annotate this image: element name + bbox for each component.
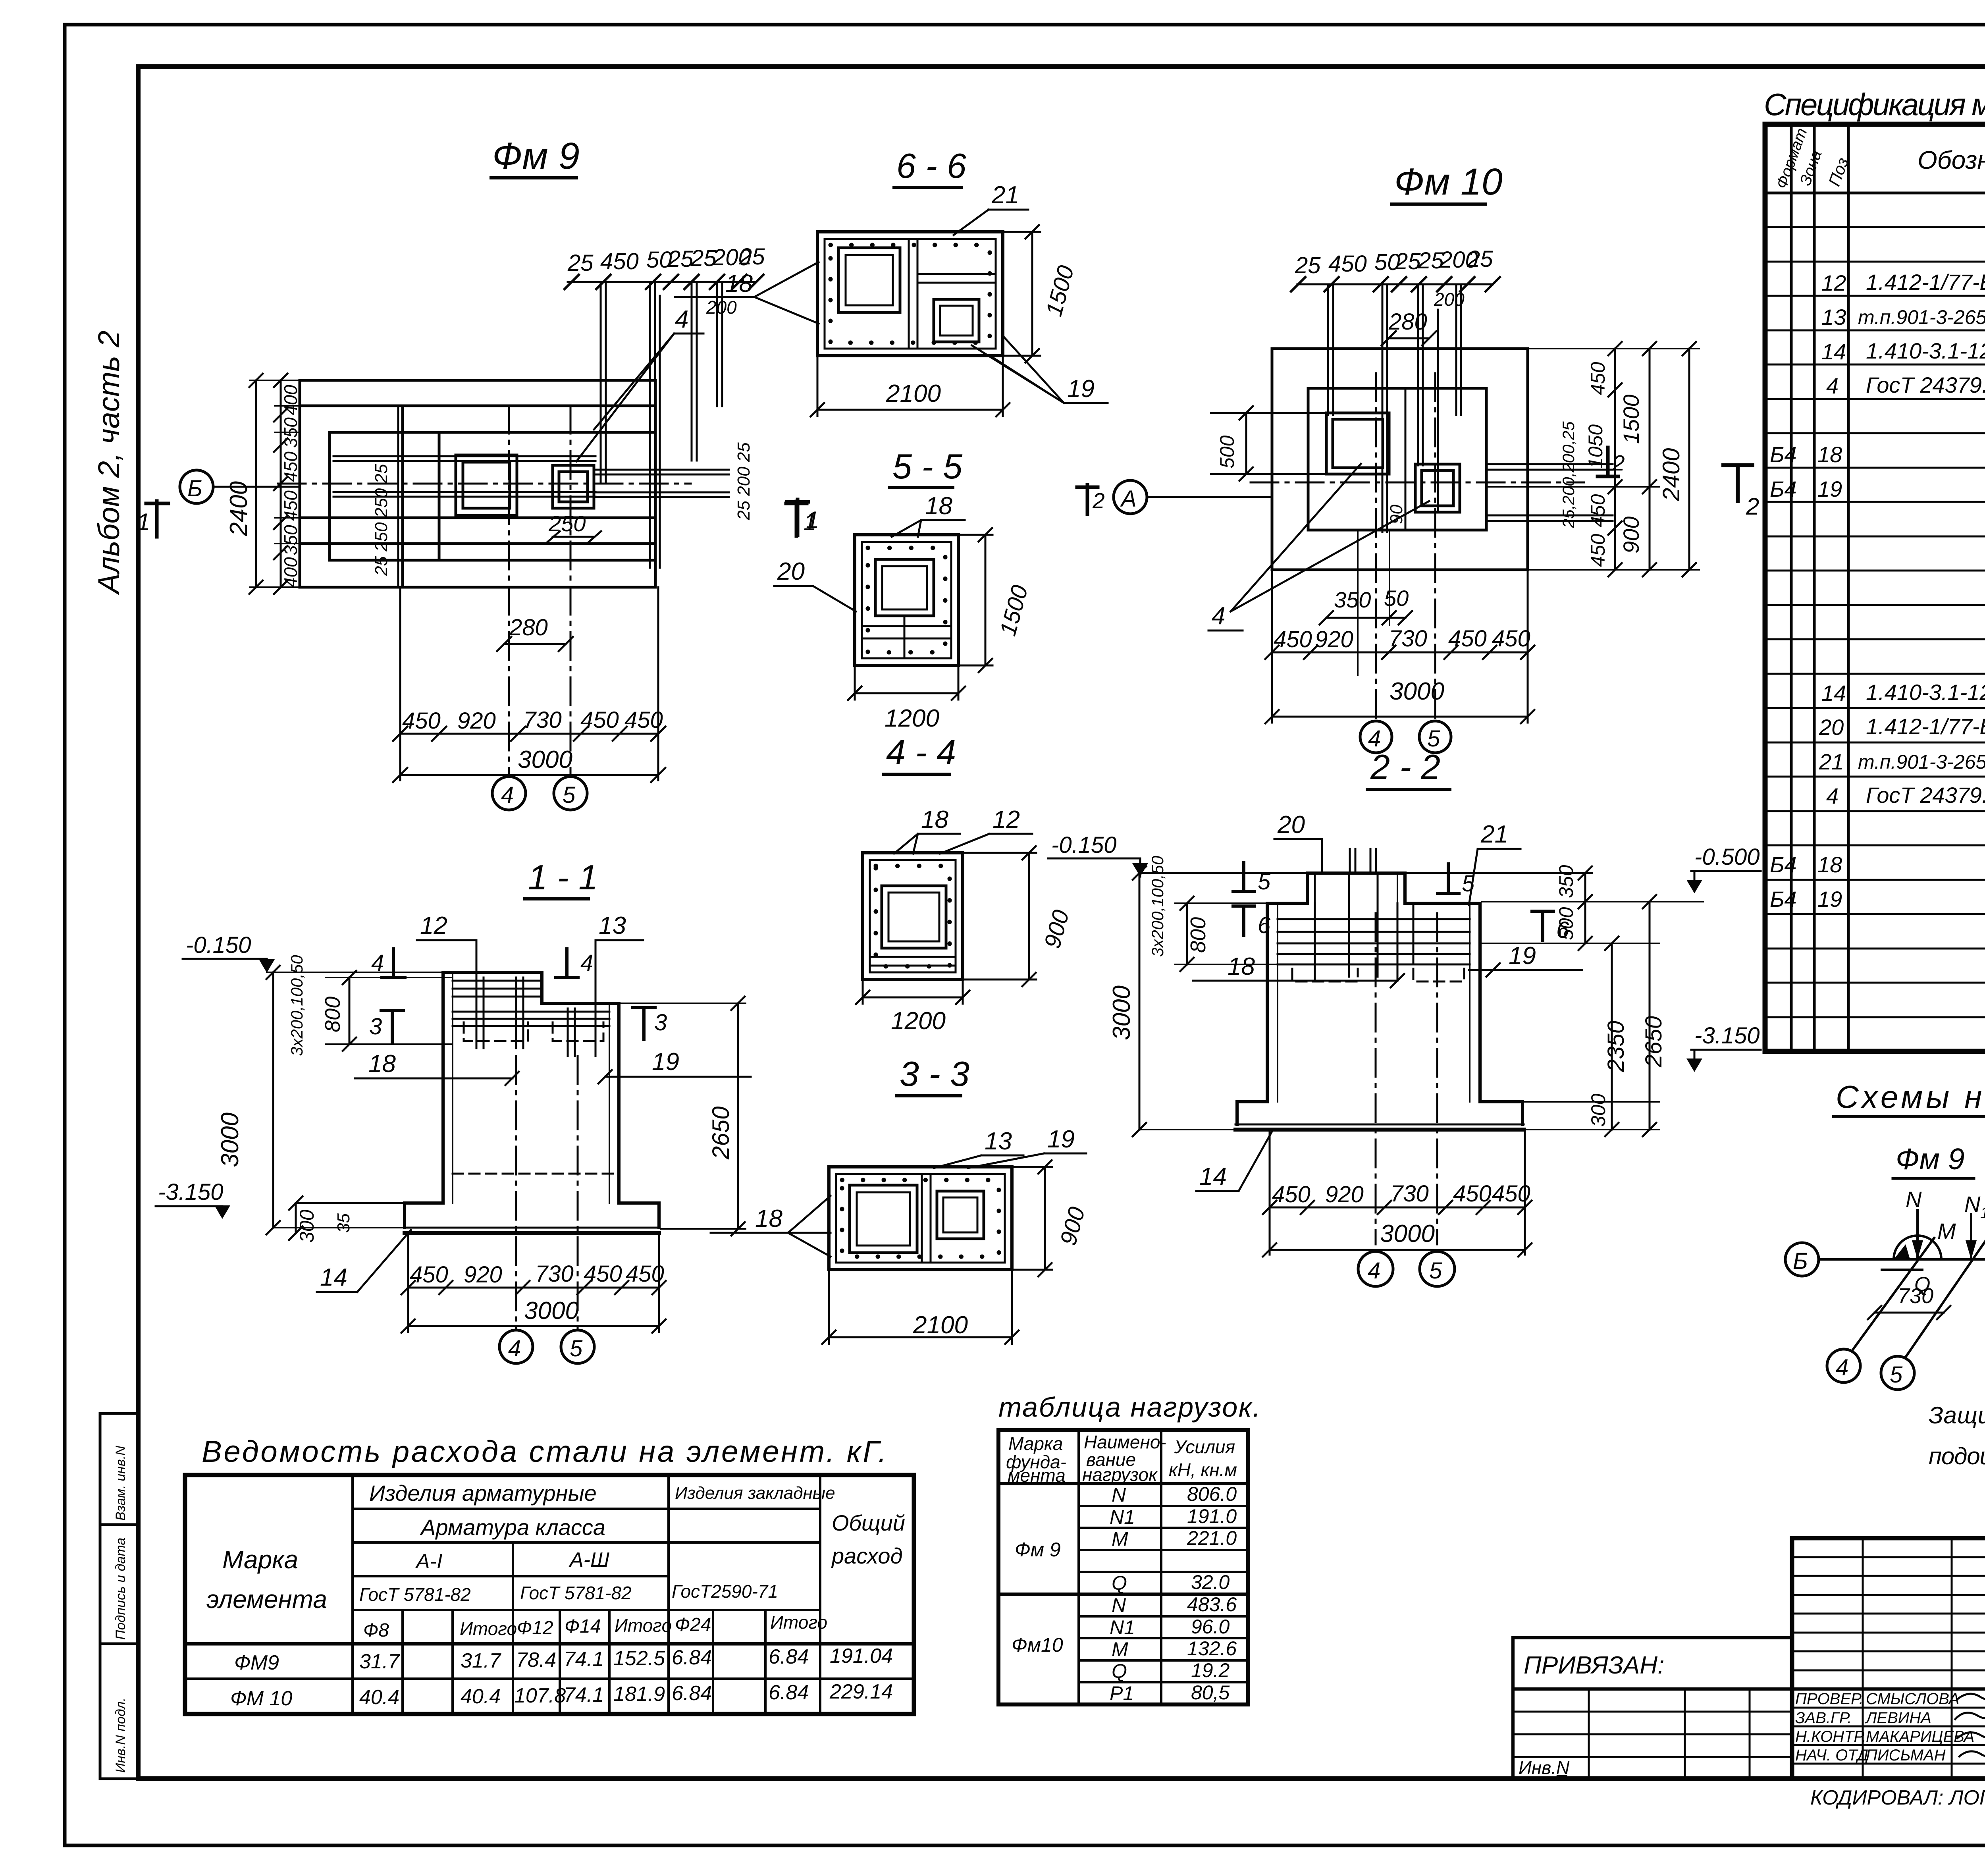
- svg-text:3 - 3: 3 - 3: [900, 1054, 969, 1093]
- svg-text:М: М: [1112, 1528, 1128, 1550]
- svg-text:300: 300: [296, 1209, 318, 1243]
- svg-text:4: 4: [1826, 373, 1839, 398]
- svg-text:6 - 6: 6 - 6: [896, 146, 966, 185]
- svg-text:18: 18: [1228, 953, 1255, 980]
- 1-1 footing: [405, 1203, 659, 1233]
- svg-text:450: 450: [580, 707, 619, 733]
- cut marks 6 (2-2): [1233, 906, 1569, 943]
- svg-text:920: 920: [464, 1262, 502, 1288]
- svg-text:78.4: 78.4: [516, 1648, 556, 1672]
- svg-text:25: 25: [739, 244, 765, 270]
- 6-6 right pocket: [934, 299, 979, 342]
- svg-text:450: 450: [1587, 534, 1609, 567]
- 5-5 bottom dim 1200: [848, 665, 965, 732]
- 4-4 pocket: [882, 886, 946, 948]
- svg-text:500: 500: [1216, 435, 1238, 469]
- svg-text:ГосТ 5781-82: ГосТ 5781-82: [520, 1583, 632, 1603]
- leader 21: [954, 181, 1028, 235]
- svg-text:Q: Q: [1112, 1572, 1127, 1594]
- svg-text:N: N: [1906, 1187, 1922, 1212]
- svg-text:350: 350: [1334, 587, 1371, 612]
- svg-text:ГосТ 24379.1-80: ГосТ 24379.1-80: [1866, 783, 1985, 808]
- dotted rebar ring 3-3: [842, 1180, 999, 1257]
- svg-text:3000: 3000: [1108, 985, 1135, 1040]
- svg-text:50: 50: [1384, 586, 1409, 611]
- leader 19 (2-2): [1469, 942, 1582, 977]
- svg-text:т.п.901-3-265 .89 КЖ.И71 0.0.0: т.п.901-3-265 .89 КЖ.И71 0.0.0.: [1858, 306, 1985, 328]
- svg-text:5: 5: [1890, 1362, 1903, 1388]
- steel table frame: [185, 1475, 914, 1714]
- 6-6 dividers: [908, 239, 910, 349]
- svg-text:Ф8: Ф8: [363, 1620, 389, 1641]
- svg-text:Взам. инв.N: Взам. инв.N: [113, 1446, 128, 1521]
- leader 18 (2-2): [1193, 953, 1404, 987]
- FM9 scheme force N1: [1964, 1192, 1985, 1259]
- leader 12 (1-1): [417, 912, 476, 985]
- svg-text:6.84: 6.84: [769, 1681, 809, 1704]
- box 6-6 formwork: [817, 232, 1003, 356]
- svg-text:мента: мента: [1008, 1465, 1066, 1486]
- svg-text:ПРИВЯЗАН:: ПРИВЯЗАН:: [1524, 1652, 1664, 1679]
- left 500 dim (FM10): [1211, 406, 1326, 481]
- svg-text:Б4: Б4: [1770, 476, 1797, 501]
- title block left mini-grid: [1792, 1538, 1985, 1779]
- svg-text:Подпись и дата: Подпись и дата: [113, 1538, 128, 1640]
- grid bubble 4 (FM9): [492, 777, 526, 810]
- FM10 3000 dim: [1265, 678, 1534, 723]
- svg-text:2400: 2400: [225, 481, 252, 536]
- FM9 scheme Q: [1882, 1270, 1930, 1296]
- svg-text:Изделия арматурные: Изделия арматурные: [369, 1481, 597, 1506]
- steel table horizontals: [185, 1509, 914, 1679]
- svg-text:800: 800: [321, 997, 345, 1032]
- svg-text:450: 450: [584, 1261, 622, 1287]
- svg-text:А-Ш: А-Ш: [569, 1548, 609, 1571]
- svg-text:74.1: 74.1: [564, 1683, 604, 1706]
- svg-text:25: 25: [1395, 249, 1421, 274]
- svg-text:400: 400: [280, 557, 301, 588]
- svg-text:N: N: [1112, 1594, 1126, 1616]
- svg-text:4: 4: [1836, 1355, 1848, 1380]
- title 2-2: [1367, 747, 1450, 789]
- svg-text:2400: 2400: [1658, 448, 1684, 501]
- svg-text:191.04: 191.04: [830, 1645, 893, 1668]
- svg-text:3х200,100,50: 3х200,100,50: [1148, 856, 1167, 957]
- left margin stamp strip: [100, 1413, 138, 1779]
- 1-1 3000 dim: [401, 1297, 666, 1333]
- svg-text:т.п.901-3-265.89 КЖ.И 72.0.0.0: т.п.901-3-265.89 КЖ.И 72.0.0.0: [1858, 751, 1985, 773]
- svg-text:Н.КОНТР.: Н.КОНТР.: [1795, 1728, 1866, 1745]
- svg-text:450: 450: [280, 451, 301, 482]
- svg-text:3000: 3000: [518, 746, 572, 773]
- svg-text:5: 5: [570, 1336, 583, 1361]
- 2-2 axes centerlines: [1375, 913, 1377, 1244]
- svg-text:450: 450: [626, 1261, 664, 1287]
- svg-text:N: N: [1112, 1484, 1126, 1506]
- leader 14 (2-2): [1196, 1131, 1272, 1191]
- svg-text:450: 450: [1587, 494, 1609, 527]
- svg-text:400: 400: [280, 385, 301, 415]
- svg-text:25: 25: [1295, 253, 1321, 278]
- 3-3 dividers: [921, 1174, 923, 1263]
- leader 14 (1-1): [317, 1230, 411, 1292]
- svg-text:40.4: 40.4: [461, 1685, 501, 1708]
- svg-text:подошвы фундаментов -35мм;оста: подошвы фундаментов -35мм;остальной-20мм…: [1929, 1443, 1985, 1469]
- svg-text:СМЫСЛОВА: СМЫСЛОВА: [1866, 1690, 1959, 1708]
- svg-text:-3.150: -3.150: [158, 1179, 223, 1205]
- svg-text:4: 4: [1368, 726, 1381, 752]
- FM9 left pocket (stakan): [456, 455, 517, 515]
- svg-text:31.7: 31.7: [461, 1649, 501, 1672]
- svg-text:2650: 2650: [1641, 1016, 1667, 1068]
- svg-text:ФМ 10: ФМ 10: [230, 1687, 292, 1710]
- 5-5 internal lines: [904, 616, 906, 658]
- svg-text:ГосТ 24379.1-80: ГосТ 24379.1-80: [1866, 372, 1985, 397]
- svg-text:Ф24: Ф24: [675, 1614, 711, 1635]
- svg-text:Q: Q: [1112, 1660, 1127, 1682]
- svg-text:19.2: 19.2: [1191, 1659, 1230, 1681]
- svg-text:450: 450: [624, 707, 663, 733]
- FM9 internal rebar pairs: [333, 456, 595, 497]
- svg-text:М: М: [1112, 1638, 1128, 1660]
- svg-text:6.84: 6.84: [769, 1645, 809, 1668]
- svg-text:Общий: Общий: [832, 1510, 905, 1535]
- FM10 rebar verticals: [1328, 284, 1461, 532]
- svg-text:181.9: 181.9: [613, 1683, 665, 1706]
- FM9 right pocket: [553, 465, 594, 508]
- 3-3 right pocket: [937, 1191, 984, 1239]
- svg-text:200: 200: [1434, 289, 1465, 310]
- svg-text:450: 450: [1448, 626, 1487, 652]
- 3-3 bottom dim 2100: [822, 1270, 1019, 1344]
- svg-text:13: 13: [985, 1128, 1012, 1155]
- signatures squiggles: [1955, 1690, 1985, 1756]
- svg-text:Б: Б: [1793, 1248, 1808, 1274]
- leader 18 (5-5): [892, 492, 965, 537]
- svg-text:2: 2: [1746, 493, 1759, 520]
- spec row lines: [1765, 227, 1985, 1017]
- title 6-6: [894, 146, 966, 187]
- grid bubble B (FM9): [180, 470, 300, 503]
- 2-2 footing: [1235, 1102, 1524, 1130]
- svg-text:Итого: Итого: [615, 1615, 672, 1636]
- svg-text:Р1: Р1: [1110, 1682, 1134, 1704]
- svg-text:N1: N1: [1110, 1616, 1135, 1639]
- privyazan block: [1513, 1638, 1792, 1779]
- svg-text:1050: 1050: [1584, 424, 1607, 469]
- svg-text:730: 730: [523, 707, 562, 733]
- svg-text:Б4: Б4: [1770, 887, 1797, 912]
- svg-text:-0.150: -0.150: [1051, 832, 1116, 858]
- svg-text:4: 4: [508, 1336, 521, 1361]
- svg-text:19: 19: [1067, 375, 1095, 403]
- svg-text:32.0: 32.0: [1191, 1571, 1230, 1593]
- FM9 grid axes verticals: [508, 406, 510, 776]
- FM10 top dim chain: [1291, 246, 1500, 310]
- 1-1 dashed stirrups: [453, 1022, 619, 1174]
- FM10 left pocket: [1326, 413, 1389, 474]
- svg-text:3000: 3000: [524, 1297, 579, 1325]
- svg-text:А: А: [1120, 486, 1137, 512]
- FM9 scheme baseline: [1819, 1258, 1985, 1261]
- svg-text:1.412-1/77-В.3-040: 1.412-1/77-В.3-040: [1866, 270, 1985, 295]
- FM9 footing outline: [300, 380, 655, 587]
- FM10 280 dim: [1382, 309, 1436, 345]
- FM10 center pocket: [1415, 464, 1460, 512]
- 6-6 right dim 1500: [1003, 225, 1079, 362]
- svg-text:1: 1: [1980, 1204, 1985, 1222]
- 1-1 axis centerlines: [515, 1056, 517, 1329]
- svg-text:4: 4: [1826, 783, 1839, 808]
- svg-text:Фм 10: Фм 10: [1394, 161, 1503, 203]
- FM10 right chains: [1486, 342, 1699, 576]
- dims 350 50 under 2-2 top area: [0, 0, 1, 1]
- svg-text:14: 14: [320, 1264, 347, 1291]
- svg-text:450: 450: [1587, 362, 1609, 395]
- svg-text:6.84: 6.84: [672, 1682, 712, 1705]
- FM10 bottom dims 450 920 730 450 450: [1265, 570, 1534, 723]
- svg-text:1: 1: [137, 509, 150, 535]
- load table FM10 block: [1012, 1593, 1237, 1704]
- svg-text:элемента: элемента: [206, 1585, 327, 1614]
- svg-text:Спецификация монолитных фундам: Спецификация монолитных фундаментов Фм9.…: [1764, 87, 1985, 122]
- svg-text:кН, кн.м: кН, кн.м: [1169, 1460, 1237, 1480]
- svg-text:-0.150: -0.150: [186, 932, 251, 958]
- FM10 axes: [1375, 373, 1377, 719]
- svg-text:Марка: Марка: [1008, 1433, 1063, 1454]
- svg-text:Альбом 2, часть 2: Альбом 2, часть 2: [92, 330, 126, 595]
- svg-text:229.14: 229.14: [829, 1680, 893, 1703]
- 1-1 column outline: [443, 972, 619, 1203]
- section cut 2 flag (plan): [1598, 447, 1625, 476]
- svg-text:806.0: 806.0: [1187, 1483, 1237, 1505]
- steel table verticals: [353, 1475, 820, 1714]
- 2-2 protruding rebars: [1315, 849, 1413, 979]
- cut marks 5 (2-2): [1233, 862, 1475, 897]
- svg-text:483.6: 483.6: [1187, 1593, 1237, 1616]
- svg-text:ЗАВ.ГР.: ЗАВ.ГР.: [1795, 1709, 1852, 1727]
- title FM10: [1392, 161, 1503, 204]
- 2-2 right dims 350 500 2350 2650 300: [1405, 865, 1667, 1136]
- section cut mark 1 (right): [787, 499, 819, 535]
- svg-text:2: 2: [1612, 451, 1625, 475]
- svg-text:280: 280: [509, 615, 548, 640]
- svg-text:14: 14: [1821, 339, 1846, 364]
- svg-text:Ф12: Ф12: [517, 1618, 553, 1639]
- svg-text:800: 800: [1186, 917, 1210, 953]
- svg-text:12: 12: [992, 806, 1020, 833]
- svg-text:450: 450: [1492, 1181, 1530, 1207]
- leader 18 (6-6): [675, 262, 819, 324]
- svg-text:Изделия закладные: Изделия закладные: [675, 1483, 835, 1503]
- svg-text:35: 35: [334, 1213, 353, 1233]
- svg-text:13: 13: [1821, 305, 1846, 330]
- svg-text:2650: 2650: [707, 1107, 734, 1160]
- svg-text:19: 19: [652, 1048, 679, 1076]
- svg-text:3000: 3000: [1380, 1220, 1435, 1247]
- svg-text:25,200,200,25: 25,200,200,25: [1559, 421, 1578, 528]
- FM10 rebar horizontals to right: [1486, 464, 1613, 521]
- svg-text:3х200,100,50: 3х200,100,50: [287, 955, 306, 1056]
- svg-text:19: 19: [1047, 1126, 1075, 1153]
- level mark -3.150 (2-2): [1686, 1023, 1761, 1072]
- svg-text:5: 5: [1462, 871, 1475, 897]
- svg-text:1 - 1: 1 - 1: [528, 858, 598, 897]
- title 3-3: [896, 1054, 969, 1096]
- svg-text:18: 18: [368, 1050, 396, 1078]
- svg-text:1.412-1/77-В.3-040: 1.412-1/77-В.3-040: [1866, 714, 1985, 739]
- FM9 scheme bubbles 4 5: [1827, 1349, 1860, 1382]
- FM9 scheme 730 dim: [1868, 1284, 1950, 1319]
- spec table frame: [1765, 124, 1985, 1051]
- svg-text:3: 3: [654, 1010, 667, 1035]
- 2-2 bottom dims 450 920 730 450 450: [1263, 1130, 1532, 1255]
- svg-text:450: 450: [280, 490, 301, 521]
- svg-text:25: 25: [567, 250, 594, 276]
- 6-6 bottom dim 2100: [811, 356, 1010, 416]
- leader 18 (3-3 left): [711, 1196, 831, 1257]
- cut mark 2 (left): [1077, 485, 1105, 514]
- FM10 inner slab: [1308, 388, 1486, 530]
- FM9 left dim chain 400 350 450 450 350 400: [274, 374, 301, 594]
- leader 18 (1-1): [355, 1050, 519, 1085]
- FM9 bottom dim chain 450 920 730 450 450: [393, 587, 665, 780]
- svg-text:14: 14: [1199, 1163, 1227, 1190]
- 3-3 left pocket: [850, 1185, 917, 1253]
- 4-4 internal lines: [870, 956, 956, 958]
- 2-2 column outline: [1267, 903, 1480, 1102]
- svg-text:5 - 5: 5 - 5: [892, 447, 963, 486]
- svg-text:21: 21: [1819, 749, 1844, 774]
- svg-text:ГосТ 5781-82: ГосТ 5781-82: [359, 1584, 471, 1605]
- svg-text:НАЧ. ОТД: НАЧ. ОТД: [1795, 1747, 1868, 1764]
- FM9 scheme moment M arc: [1894, 1219, 1956, 1259]
- svg-text:450: 450: [1453, 1181, 1492, 1207]
- FM9 3000 dim: [393, 746, 665, 782]
- svg-text:730: 730: [1898, 1284, 1933, 1308]
- FM9 scheme: axis B bubble: [1785, 1243, 1819, 1276]
- 2-2 left dims 3000 800 3x200: [1108, 856, 1307, 1136]
- svg-text:А-І: А-І: [415, 1550, 442, 1573]
- svg-text:20: 20: [1277, 811, 1305, 839]
- svg-text:-3.150: -3.150: [1694, 1023, 1760, 1049]
- svg-text:расход: расход: [831, 1543, 903, 1568]
- svg-text:ГосТ2590-71: ГосТ2590-71: [672, 1581, 778, 1602]
- svg-text:19: 19: [1509, 942, 1536, 970]
- svg-text:21: 21: [1480, 821, 1508, 848]
- grid bubble 5 (FM10): [1419, 721, 1451, 753]
- svg-text:25: 25: [667, 246, 694, 272]
- svg-text:ПРОВЕР.: ПРОВЕР.: [1795, 1690, 1864, 1708]
- FM9 rebar horizontals extending right: [595, 470, 729, 497]
- svg-text:900: 900: [1619, 517, 1644, 553]
- svg-text:12: 12: [420, 912, 447, 939]
- svg-text:730: 730: [1389, 626, 1427, 652]
- svg-text:3: 3: [369, 1014, 382, 1039]
- svg-text:2100: 2100: [886, 380, 941, 407]
- svg-text:450: 450: [600, 249, 639, 274]
- svg-text:450: 450: [1328, 251, 1367, 277]
- spec FM10 section rows: [1770, 611, 1985, 1014]
- svg-text:1200: 1200: [891, 1007, 946, 1035]
- grid bubble 4 (FM10): [1360, 721, 1392, 753]
- svg-text:2: 2: [1092, 488, 1105, 513]
- svg-text:4: 4: [501, 782, 514, 808]
- svg-text:500: 500: [1555, 907, 1577, 940]
- svg-text:Усилия: Усилия: [1174, 1436, 1235, 1457]
- svg-text:13: 13: [599, 912, 626, 939]
- svg-text:25 250 250 25: 25 250 250 25: [372, 464, 391, 576]
- 1-1 left dim 3000 and -3.150: [156, 966, 405, 1243]
- svg-text:5: 5: [563, 782, 576, 808]
- svg-text:18: 18: [921, 806, 948, 833]
- svg-text:1.410-3.1-12: 1.410-3.1-12: [1866, 680, 1985, 705]
- svg-text:450: 450: [402, 708, 441, 734]
- FM10 centerline: [1251, 482, 1584, 484]
- cut marks 3 (1-1): [369, 1008, 667, 1042]
- level mark -0.150 (1-1): [183, 932, 443, 973]
- main title block frame: [1792, 1538, 1985, 1779]
- 6-6 left pocket: [838, 248, 900, 312]
- 2-2 stakan top: [1307, 873, 1405, 903]
- 3-3 right dim 900: [1012, 1160, 1090, 1276]
- svg-text:31.7: 31.7: [359, 1650, 400, 1673]
- svg-text:Ф14: Ф14: [565, 1616, 601, 1637]
- 5-5 right dim 1500: [958, 528, 1033, 672]
- svg-text:18: 18: [725, 270, 753, 297]
- leader 20 (5-5): [774, 558, 856, 611]
- dotted rebar ring 6-6: [831, 245, 990, 343]
- svg-text:18: 18: [1817, 852, 1842, 877]
- svg-text:132.6: 132.6: [1187, 1637, 1237, 1660]
- svg-text:4: 4: [1212, 602, 1225, 630]
- 5-5 pocket: [875, 559, 934, 616]
- spec table column lines: [1791, 124, 1985, 1051]
- FM9 inner slab lines: [401, 406, 404, 587]
- section cut T2 symbol: [1723, 465, 1759, 520]
- grid bubble 5 (FM9): [554, 777, 587, 810]
- label 250 under right pocket: [547, 511, 601, 542]
- svg-text:ЛЕВИНА: ЛЕВИНА: [1865, 1709, 1931, 1727]
- svg-text:4: 4: [371, 950, 384, 976]
- FM10 350 50 dims: [1320, 532, 1412, 675]
- svg-text:Б4: Б4: [1770, 442, 1797, 467]
- FM9 left extension lines: [250, 380, 300, 587]
- svg-text:96.0: 96.0: [1191, 1616, 1230, 1638]
- svg-text:4: 4: [1368, 1258, 1380, 1284]
- svg-text:Итого: Итого: [770, 1612, 827, 1633]
- level mark -0.500: [1482, 844, 1761, 902]
- load table frame: [998, 1430, 1248, 1704]
- FM9 scheme force N: [1906, 1187, 1923, 1259]
- svg-text:19: 19: [1817, 476, 1842, 501]
- svg-text:2350: 2350: [1603, 1021, 1629, 1072]
- leaders 13 19 (3-3): [934, 1126, 1086, 1168]
- svg-text:4 - 4: 4 - 4: [886, 733, 956, 772]
- svg-text:19: 19: [1817, 887, 1842, 912]
- svg-text:3000: 3000: [216, 1112, 244, 1167]
- 1-1 horizontal rebar lines: [453, 981, 609, 1026]
- svg-text:730: 730: [1390, 1181, 1429, 1207]
- box 5-5: [855, 535, 958, 665]
- svg-text:920: 920: [457, 708, 496, 734]
- svg-text:Б4: Б4: [1770, 852, 1797, 877]
- title 5-5: [889, 447, 963, 488]
- svg-text:Фм 9: Фм 9: [1015, 1539, 1061, 1561]
- svg-text:М: М: [1937, 1219, 1956, 1244]
- svg-text:5: 5: [1429, 1258, 1442, 1284]
- svg-text:450: 450: [1492, 626, 1530, 652]
